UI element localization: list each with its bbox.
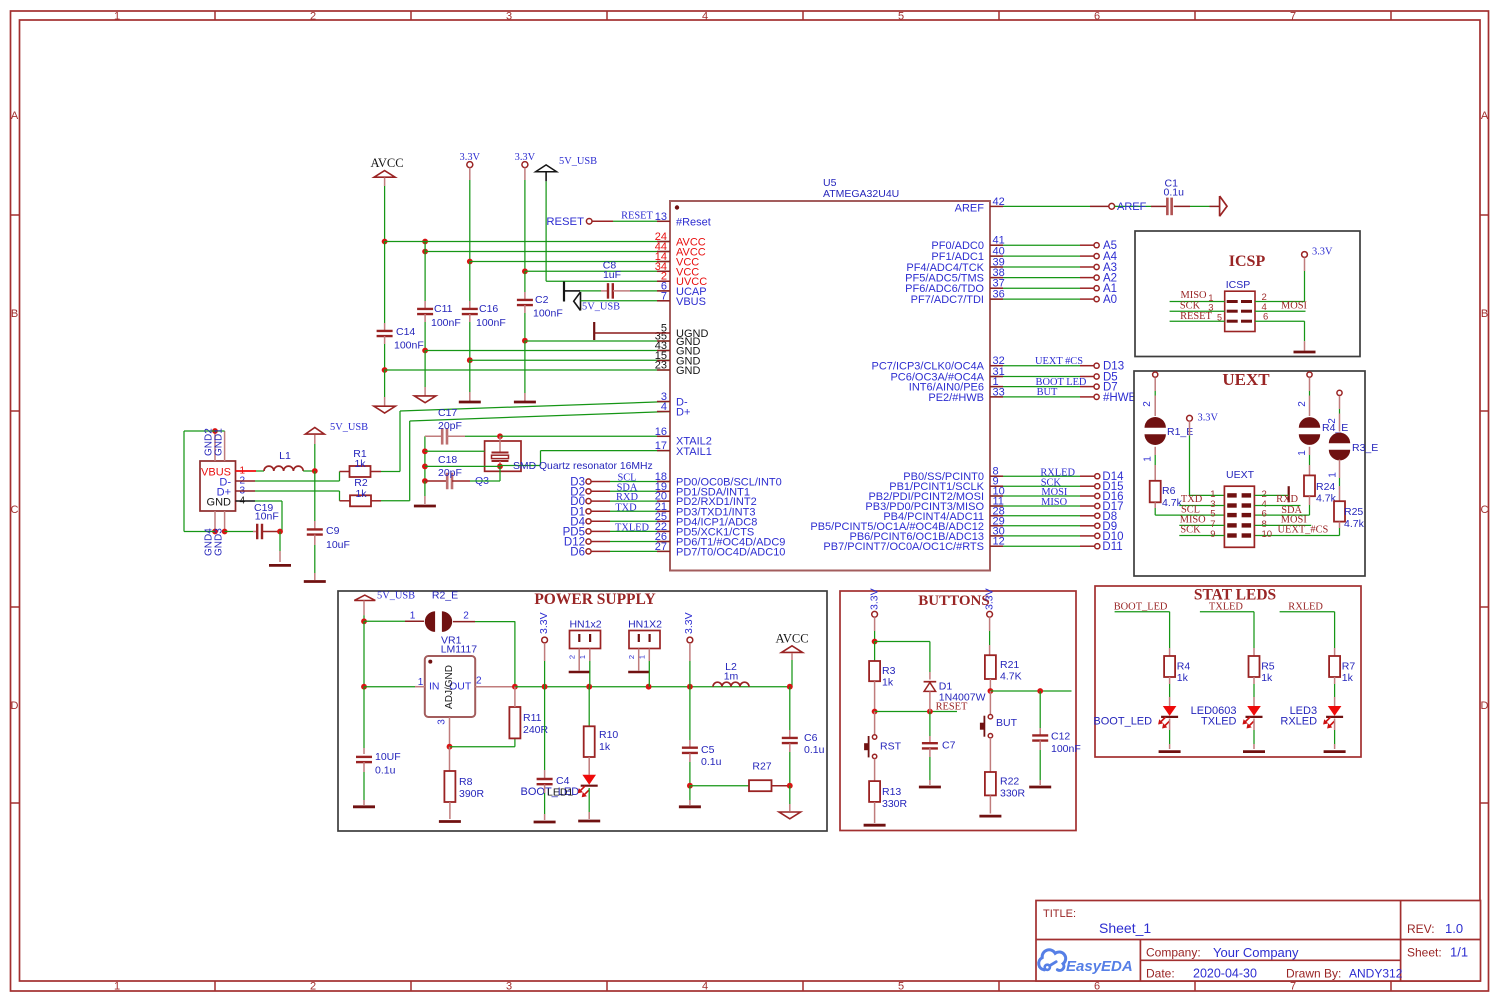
svg-text:XTAIL1: XTAIL1 [676,446,712,458]
svg-text:B: B [1481,308,1488,320]
svg-text:3.3V: 3.3V [984,588,996,610]
svg-text:10nF: 10nF [255,511,279,523]
svg-text:POWER SUPPLY: POWER SUPPLY [534,591,655,608]
svg-text:0.1u: 0.1u [375,765,396,777]
svg-text:2: 2 [1142,401,1153,407]
svg-text:VBUS: VBUS [676,296,706,308]
svg-text:L1: L1 [279,450,291,462]
svg-text:100nF: 100nF [1051,743,1081,755]
svg-text:BOOT LED: BOOT LED [1036,377,1087,388]
svg-text:#Reset: #Reset [676,216,711,228]
svg-text:RST: RST [880,741,902,753]
svg-text:#HWB: #HWB [1103,392,1137,404]
svg-text:R27: R27 [752,761,771,773]
svg-text:2: 2 [463,611,469,622]
svg-text:10UF: 10UF [375,751,401,763]
svg-text:4: 4 [702,11,708,23]
svg-text:1m: 1m [724,671,739,683]
svg-text:R5: R5 [1261,661,1275,673]
svg-text:BUTTONS: BUTTONS [918,593,989,609]
svg-text:C7: C7 [942,740,956,752]
svg-text:0.1u: 0.1u [701,756,722,768]
svg-text:3: 3 [1208,303,1213,314]
svg-text:10uF: 10uF [326,539,350,551]
svg-text:C14: C14 [396,326,415,338]
svg-text:BUT: BUT [1037,387,1058,398]
svg-text:RXD: RXD [1276,494,1298,505]
svg-text:1: 1 [114,11,120,23]
svg-text:D+: D+ [676,407,690,419]
svg-text:390R: 390R [459,788,485,800]
svg-text:3.3V: 3.3V [538,612,550,634]
svg-text:100nF: 100nF [394,340,424,352]
svg-text:1k: 1k [1261,672,1273,684]
svg-text:2: 2 [567,655,576,659]
svg-text:R8: R8 [459,776,473,788]
svg-text:R21: R21 [1000,659,1019,671]
svg-text:GND3: GND3 [214,528,225,556]
svg-text:TXLED: TXLED [1209,602,1244,613]
svg-text:7: 7 [1290,11,1296,23]
svg-text:LED1: LED1 [547,787,573,799]
svg-text:R3: R3 [882,665,896,677]
svg-text:5: 5 [898,11,904,23]
svg-text:2: 2 [1327,418,1338,424]
svg-text:GND1: GND1 [214,428,225,456]
svg-text:UEXT: UEXT [1226,469,1255,481]
svg-text:R22: R22 [1000,776,1019,788]
svg-text:TXD: TXD [615,502,637,513]
svg-text:AREF: AREF [955,203,985,215]
svg-text:TITLE:: TITLE: [1043,908,1076,920]
svg-text:1k: 1k [354,458,366,470]
svg-text:PE2/#HWB: PE2/#HWB [928,392,984,404]
svg-text:D11: D11 [1102,541,1122,553]
svg-text:1k: 1k [355,488,367,500]
svg-text:ATMEGA32U4U: ATMEGA32U4U [823,188,899,200]
svg-text:RESET: RESET [621,211,653,222]
svg-text:R13: R13 [882,786,901,798]
svg-text:GND: GND [207,497,232,509]
svg-text:ICSP: ICSP [1229,253,1266,270]
svg-text:1k: 1k [1342,672,1354,684]
svg-text:5: 5 [1217,313,1222,323]
svg-text:HN1x2: HN1x2 [569,619,601,631]
svg-text:1: 1 [410,611,416,622]
svg-text:C5: C5 [701,744,715,756]
svg-text:UEXT: UEXT [1222,370,1270,389]
svg-text:HN1X2: HN1X2 [628,619,662,631]
svg-text:Company:: Company: [1146,946,1201,960]
svg-text:3: 3 [506,11,512,23]
svg-text:PB7/PCINT7/OC0A/OC1C/#RTS: PB7/PCINT7/OC0A/OC1C/#RTS [823,541,984,553]
svg-text:4: 4 [702,981,708,993]
svg-text:AVCC: AVCC [775,632,808,646]
svg-text:SCK: SCK [1180,524,1201,535]
svg-text:R11: R11 [523,712,542,724]
svg-text:5V_USB: 5V_USB [330,422,368,433]
svg-text:B: B [11,308,18,320]
svg-text:Sheet:: Sheet: [1407,946,1442,960]
svg-text:RXLED: RXLED [1288,602,1323,613]
svg-text:UEXT_#CS: UEXT_#CS [1277,524,1328,535]
svg-text:C9: C9 [326,525,340,537]
svg-text:1/1: 1/1 [1450,945,1468,960]
svg-text:D: D [11,700,19,712]
svg-text:9: 9 [1210,529,1215,540]
svg-text:AVCC: AVCC [370,156,403,170]
svg-text:AREF: AREF [1117,201,1147,213]
svg-text:GND: GND [676,365,701,377]
svg-text:C: C [11,504,19,516]
svg-text:C18: C18 [438,454,457,466]
svg-text:7: 7 [1290,981,1296,993]
svg-text:BOOT_LED: BOOT_LED [1114,602,1168,613]
svg-text:0.1u: 0.1u [1164,187,1185,199]
svg-text:C12: C12 [1051,731,1070,743]
svg-text:IN: IN [429,681,440,693]
svg-text:4.7K: 4.7K [1000,671,1022,683]
svg-text:2: 2 [1297,401,1308,407]
svg-text:SMD Quartz resonator 16MHz: SMD Quartz resonator 16MHz [513,461,653,472]
svg-text:R4: R4 [1177,661,1191,673]
svg-text:3: 3 [506,981,512,993]
svg-text:C6: C6 [804,732,818,744]
svg-text:1: 1 [1297,450,1308,456]
svg-text:1: 1 [1328,472,1339,478]
svg-text:Your Company: Your Company [1213,945,1299,960]
svg-text:3: 3 [437,719,448,725]
svg-text:5: 5 [898,981,904,993]
svg-text:3.3V: 3.3V [869,588,881,610]
svg-text:1k: 1k [1177,672,1189,684]
svg-text:R25: R25 [1344,506,1363,518]
svg-text:Date:: Date: [1146,967,1175,981]
svg-text:1: 1 [1143,456,1154,462]
svg-text:5V_USB: 5V_USB [582,302,620,313]
svg-text:6: 6 [1094,981,1100,993]
svg-text:0.1u: 0.1u [804,744,825,756]
svg-text:R3_E: R3_E [1352,442,1378,454]
svg-text:R6: R6 [1162,485,1176,497]
svg-text:TXLED: TXLED [615,523,650,534]
svg-text:6: 6 [1094,11,1100,23]
svg-text:REV:: REV: [1407,922,1435,936]
svg-text:ANDY312: ANDY312 [1349,967,1403,981]
svg-text:1k: 1k [599,741,611,753]
svg-text:C11: C11 [434,303,453,315]
svg-text:3.3V: 3.3V [1198,413,1219,424]
svg-text:1k: 1k [882,677,894,689]
svg-text:BOOT_LED: BOOT_LED [1093,716,1152,728]
svg-text:1uF: 1uF [603,269,621,281]
svg-text:4.7k: 4.7k [1162,497,1183,509]
svg-text:1N4007W: 1N4007W [939,692,986,704]
svg-text:A0: A0 [1103,294,1117,306]
svg-text:1: 1 [114,981,120,993]
svg-text:PF7/ADC7/TDI: PF7/ADC7/TDI [911,294,984,306]
svg-text:100nF: 100nF [533,308,563,320]
svg-text:SCK: SCK [1180,300,1201,311]
svg-text:C: C [1481,504,1489,516]
svg-text:20pF: 20pF [438,420,462,432]
svg-text:EasyEDA: EasyEDA [1066,958,1133,975]
svg-text:BUT: BUT [996,717,1018,729]
svg-text:10: 10 [1262,529,1273,540]
svg-text:PD7/T0/OC4D/ADC10: PD7/T0/OC4D/ADC10 [676,546,785,558]
svg-text:LM1117: LM1117 [441,644,478,656]
svg-text:D6: D6 [570,546,585,558]
svg-text:RXLED: RXLED [1280,716,1317,728]
svg-text:2: 2 [476,676,482,687]
svg-text:ICSP: ICSP [1226,279,1251,291]
svg-text:C16: C16 [479,303,498,315]
svg-text:3.3V: 3.3V [1312,247,1333,258]
svg-text:2: 2 [627,655,636,659]
svg-text:2: 2 [310,11,316,23]
svg-text:D: D [1481,700,1489,712]
svg-text:R10: R10 [599,729,618,741]
svg-text:2: 2 [310,981,316,993]
svg-text:Sheet_1: Sheet_1 [1099,920,1151,936]
svg-text:Drawn By:: Drawn By: [1286,967,1341,981]
svg-text:1.0: 1.0 [1445,921,1463,936]
svg-text:MOSI: MOSI [1281,301,1308,312]
svg-text:4.7k: 4.7k [1344,518,1365,530]
svg-text:MISO: MISO [1041,497,1067,508]
svg-text:6: 6 [1263,312,1268,323]
svg-text:2020-04-30: 2020-04-30 [1193,967,1257,981]
svg-text:C2: C2 [535,294,549,306]
svg-text:A: A [1481,110,1489,122]
svg-text:UEXT #CS: UEXT #CS [1035,356,1083,367]
svg-text:100nF: 100nF [476,317,506,329]
svg-text:5V_USB: 5V_USB [377,591,415,602]
svg-text:R7: R7 [1342,661,1356,673]
svg-text:330R: 330R [882,798,908,810]
svg-text:A: A [11,110,19,122]
svg-text:5V_USB: 5V_USB [559,156,597,167]
svg-text:C17: C17 [438,407,457,419]
svg-text:330R: 330R [1000,788,1026,800]
svg-text:100nF: 100nF [431,317,461,329]
svg-text:3.3V: 3.3V [683,612,695,634]
svg-text:R2_E: R2_E [432,590,458,602]
svg-text:RESET: RESET [546,216,584,228]
svg-text:TXLED: TXLED [1201,716,1237,728]
svg-text:ADJ/GND: ADJ/GND [444,665,455,709]
svg-text:R24: R24 [1316,481,1335,493]
svg-text:20pF: 20pF [438,467,462,479]
